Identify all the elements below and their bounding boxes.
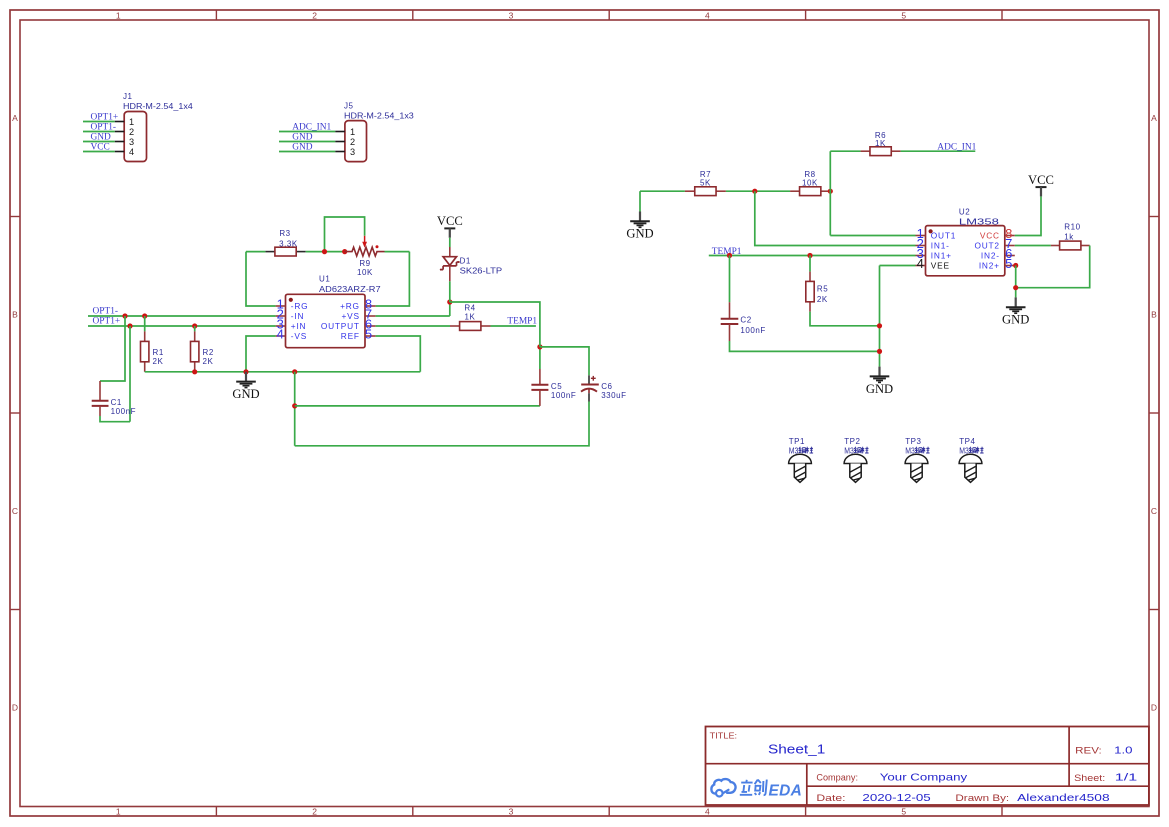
svg-text:GND: GND	[626, 227, 653, 241]
svg-text:Your Company: Your Company	[880, 771, 968, 783]
svg-text:GND: GND	[91, 133, 112, 143]
svg-text:Sheet:: Sheet:	[1074, 773, 1105, 784]
svg-text:5: 5	[901, 807, 906, 817]
svg-text:2K: 2K	[153, 357, 164, 366]
svg-text:100nF: 100nF	[740, 326, 765, 335]
svg-text:ADC_IN1: ADC_IN1	[937, 143, 976, 153]
svg-text:TP3: TP3	[905, 437, 921, 446]
svg-text:Date:: Date:	[816, 793, 845, 804]
svg-text:4: 4	[705, 10, 710, 20]
svg-text:2: 2	[312, 807, 317, 817]
svg-text:OUTPUT: OUTPUT	[321, 321, 360, 331]
svg-text:1: 1	[350, 127, 355, 137]
svg-text:1.0: 1.0	[1114, 745, 1133, 757]
svg-text:10K: 10K	[802, 179, 818, 188]
svg-text:+VS: +VS	[341, 311, 359, 321]
svg-text:VEE: VEE	[931, 261, 950, 271]
svg-text:3: 3	[129, 137, 134, 147]
svg-text:R10: R10	[1064, 222, 1080, 231]
svg-text:VCC: VCC	[91, 143, 110, 153]
svg-text:TEMP1: TEMP1	[507, 317, 537, 327]
svg-text:U1: U1	[319, 275, 330, 284]
svg-text:Alexander4508: Alexander4508	[1017, 792, 1110, 804]
svg-text:1/1: 1/1	[1115, 771, 1138, 783]
svg-text:3: 3	[509, 10, 514, 20]
svg-text:TITLE:: TITLE:	[710, 731, 737, 741]
svg-text:C: C	[12, 506, 18, 516]
svg-text:D: D	[12, 703, 18, 713]
svg-text:B: B	[12, 310, 18, 320]
svg-text:100nF: 100nF	[111, 407, 136, 416]
svg-text:REV:: REV:	[1075, 746, 1102, 757]
svg-text:GND: GND	[292, 143, 313, 153]
svg-text:J5: J5	[344, 102, 354, 111]
svg-text:5K: 5K	[700, 179, 711, 188]
svg-text:3: 3	[350, 147, 355, 157]
svg-text:C1: C1	[111, 398, 122, 407]
svg-text:R8: R8	[804, 170, 815, 179]
svg-text:R5: R5	[817, 284, 828, 293]
svg-text:R9: R9	[359, 259, 370, 268]
svg-text:OPT1-: OPT1-	[91, 123, 117, 133]
svg-text:OPT1+: OPT1+	[91, 113, 119, 123]
svg-text:IN1-: IN1-	[931, 241, 950, 251]
svg-text:TP1: TP1	[789, 437, 805, 446]
svg-text:2020-12-05: 2020-12-05	[862, 792, 930, 804]
svg-text:GND: GND	[1002, 313, 1029, 327]
svg-text:4: 4	[917, 256, 924, 271]
svg-text:TP2: TP2	[844, 437, 860, 446]
svg-text:SK26-LTP: SK26-LTP	[460, 266, 503, 275]
svg-text:OUT1: OUT1	[931, 231, 956, 241]
svg-text:C2: C2	[740, 316, 751, 325]
svg-text:3.3K: 3.3K	[279, 239, 298, 248]
svg-text:OUT2: OUT2	[974, 241, 999, 251]
svg-text:4: 4	[277, 327, 284, 342]
svg-text:GND: GND	[866, 382, 893, 396]
svg-text:D: D	[1151, 703, 1157, 713]
svg-text:TP4: TP4	[959, 437, 975, 446]
svg-text:VCC: VCC	[1028, 173, 1054, 187]
svg-text:1: 1	[116, 10, 121, 20]
svg-text:IN2-: IN2-	[981, 251, 1000, 261]
svg-text:AD623ARZ-R7: AD623ARZ-R7	[319, 285, 381, 294]
svg-text:1K: 1K	[465, 312, 476, 321]
svg-text:U2: U2	[959, 208, 970, 217]
svg-text:R3: R3	[279, 229, 290, 238]
svg-text:EDA: EDA	[769, 782, 803, 799]
svg-text:2: 2	[312, 10, 317, 20]
svg-text:3: 3	[509, 807, 514, 817]
svg-text:VCC: VCC	[980, 231, 1000, 241]
svg-text:Drawn By:: Drawn By:	[955, 793, 1009, 804]
svg-text:1: 1	[116, 807, 121, 817]
svg-text:B: B	[1151, 310, 1157, 320]
svg-text:J1: J1	[123, 92, 133, 101]
svg-text:D1: D1	[460, 256, 471, 265]
svg-text:C5: C5	[551, 382, 562, 391]
svg-text:A: A	[12, 113, 18, 123]
svg-text:IN1+: IN1+	[931, 251, 952, 261]
svg-text:-VS: -VS	[291, 331, 307, 341]
svg-text:R2: R2	[203, 348, 214, 357]
svg-text:C: C	[1151, 506, 1157, 516]
svg-text:R1: R1	[153, 348, 164, 357]
svg-text:TEMP1: TEMP1	[712, 247, 742, 257]
svg-text:C6: C6	[601, 382, 612, 391]
svg-text:5: 5	[1005, 256, 1012, 271]
svg-text:330uF: 330uF	[601, 391, 626, 400]
svg-text:R7: R7	[700, 170, 711, 179]
svg-text:Company:: Company:	[816, 773, 858, 784]
svg-text:5: 5	[901, 10, 906, 20]
svg-text:-RG: -RG	[291, 301, 309, 311]
svg-text:4: 4	[705, 807, 710, 817]
svg-text:2K: 2K	[817, 295, 828, 304]
svg-text:HDR-M-2.54_1x4: HDR-M-2.54_1x4	[123, 102, 193, 111]
svg-text:1: 1	[129, 117, 134, 127]
svg-text:HDR-M-2.54_1x3: HDR-M-2.54_1x3	[344, 111, 414, 120]
svg-text:10K: 10K	[357, 268, 373, 277]
svg-text:+IN: +IN	[291, 321, 307, 331]
svg-text:2: 2	[350, 137, 355, 147]
svg-text:IN2+: IN2+	[979, 261, 1000, 271]
svg-text:4: 4	[129, 147, 134, 157]
svg-text:A: A	[1151, 113, 1157, 123]
svg-text:OPT1+: OPT1+	[93, 317, 121, 327]
svg-text:2K: 2K	[203, 357, 214, 366]
svg-text:ADC_IN1: ADC_IN1	[292, 123, 331, 133]
svg-text:GND: GND	[232, 387, 259, 401]
svg-text:1K: 1K	[875, 139, 886, 148]
svg-text:REF: REF	[341, 331, 360, 341]
svg-text:1k: 1k	[1064, 232, 1074, 241]
svg-text:GND: GND	[292, 133, 313, 143]
svg-text:-IN: -IN	[291, 311, 304, 321]
svg-text:5: 5	[365, 327, 372, 342]
svg-text:100nF: 100nF	[551, 391, 576, 400]
svg-text:OPT1-: OPT1-	[93, 307, 119, 317]
svg-text:VCC: VCC	[437, 214, 463, 228]
svg-text:+RG: +RG	[340, 301, 360, 311]
svg-text:Sheet_1: Sheet_1	[768, 743, 825, 757]
svg-text:2: 2	[129, 127, 134, 137]
